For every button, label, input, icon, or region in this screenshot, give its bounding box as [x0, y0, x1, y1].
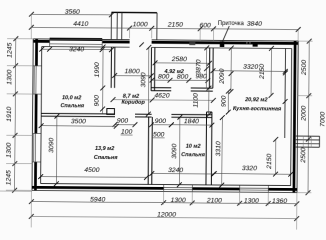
svg-text:5940: 5940	[90, 196, 105, 203]
svg-text:600: 600	[199, 22, 211, 29]
svg-text:900: 900	[117, 118, 129, 125]
svg-text:1360: 1360	[272, 198, 287, 205]
svg-text:10 м2: 10 м2	[186, 144, 201, 150]
svg-text:Кухня-гостинная: Кухня-гостинная	[233, 106, 282, 112]
svg-text:4500: 4500	[84, 167, 99, 174]
svg-text:2100: 2100	[206, 197, 222, 204]
svg-text:1910: 1910	[6, 106, 13, 121]
svg-text:2500: 2500	[301, 60, 308, 76]
svg-text:3090: 3090	[140, 72, 147, 87]
svg-text:500: 500	[153, 131, 165, 138]
svg-text:1840: 1840	[184, 118, 199, 125]
svg-text:Приточка: Приточка	[218, 21, 245, 27]
svg-text:3560: 3560	[65, 9, 80, 16]
svg-text:3320: 3320	[243, 64, 258, 71]
svg-text:1000: 1000	[133, 21, 148, 28]
svg-text:900: 900	[155, 118, 167, 125]
svg-text:2150: 2150	[167, 22, 183, 29]
svg-text:1245: 1245	[5, 170, 12, 185]
svg-text:3320: 3320	[242, 165, 257, 172]
svg-text:Спальня: Спальня	[181, 152, 206, 158]
svg-text:2150: 2150	[266, 153, 273, 169]
svg-text:3090: 3090	[171, 143, 178, 158]
svg-text:2000: 2000	[300, 105, 307, 121]
svg-text:3500: 3500	[71, 118, 86, 125]
svg-text:20,92 м2: 20,92 м2	[244, 97, 267, 103]
svg-text:3840: 3840	[247, 21, 262, 28]
svg-text:7000: 7000	[320, 112, 326, 127]
svg-text:3310: 3310	[215, 141, 222, 156]
svg-text:13,9 м2: 13,9 м2	[95, 146, 114, 152]
svg-text:2150: 2150	[259, 64, 266, 80]
svg-text:4,92 м2: 4,92 м2	[163, 69, 183, 75]
svg-text:Спальня: Спальня	[94, 155, 119, 161]
svg-text:1300: 1300	[6, 69, 13, 84]
svg-text:2500: 2500	[300, 147, 307, 163]
svg-text:2580: 2580	[171, 56, 187, 63]
svg-text:1300: 1300	[5, 142, 12, 157]
svg-text:4410: 4410	[73, 21, 88, 28]
svg-text:1100: 1100	[193, 93, 200, 108]
svg-text:1245: 1245	[6, 42, 13, 57]
svg-text:Спальня: Спальня	[60, 103, 85, 109]
svg-text:900: 900	[221, 95, 228, 107]
svg-text:1300: 1300	[171, 197, 186, 204]
svg-text:3870: 3870	[195, 59, 202, 74]
svg-text:10,0 м2: 10,0 м2	[62, 95, 81, 101]
svg-text:1300: 1300	[244, 197, 259, 204]
svg-text:8,7 м2: 8,7 м2	[123, 93, 139, 99]
svg-text:3240: 3240	[168, 167, 183, 174]
svg-text:900: 900	[93, 95, 100, 107]
svg-text:12000: 12000	[157, 212, 176, 219]
svg-text:1800: 1800	[124, 68, 139, 75]
svg-text:100: 100	[121, 129, 133, 136]
svg-text:4620: 4620	[154, 92, 169, 99]
svg-text:Коридор: Коридор	[121, 100, 145, 106]
svg-text:3240: 3240	[69, 46, 84, 53]
svg-text:1990: 1990	[94, 62, 101, 77]
svg-text:3090: 3090	[48, 138, 55, 153]
